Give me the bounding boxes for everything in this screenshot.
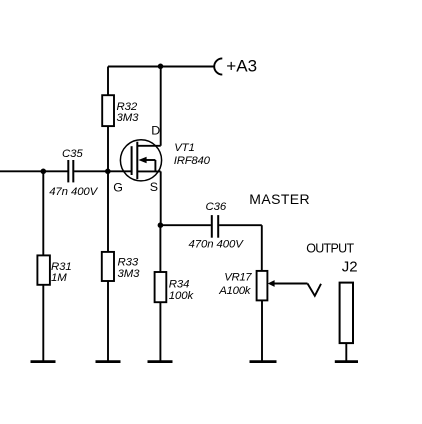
- svg-text:J2: J2: [342, 258, 358, 275]
- svg-text:3M3: 3M3: [118, 268, 141, 280]
- svg-text:VR17: VR17: [224, 272, 252, 284]
- svg-text:IRF840: IRF840: [174, 155, 211, 167]
- svg-text:R33: R33: [118, 257, 139, 269]
- svg-text:47n 400V: 47n 400V: [49, 186, 98, 198]
- svg-text:OUTPUT: OUTPUT: [306, 241, 354, 255]
- svg-text:1M: 1M: [51, 272, 67, 284]
- svg-text:VT1: VT1: [174, 142, 195, 154]
- svg-text:100k: 100k: [169, 290, 195, 302]
- svg-text:G: G: [113, 181, 123, 195]
- svg-text:470n 400V: 470n 400V: [189, 239, 245, 251]
- svg-text:A100k: A100k: [218, 285, 252, 297]
- svg-text:3M3: 3M3: [117, 112, 140, 124]
- svg-text:C35: C35: [62, 148, 83, 160]
- svg-text:MASTER: MASTER: [249, 191, 310, 207]
- svg-text:R34: R34: [169, 278, 190, 290]
- svg-text:D: D: [151, 123, 160, 137]
- svg-text:C36: C36: [206, 201, 227, 213]
- svg-text:S: S: [150, 180, 158, 194]
- svg-text:+A3: +A3: [226, 56, 257, 75]
